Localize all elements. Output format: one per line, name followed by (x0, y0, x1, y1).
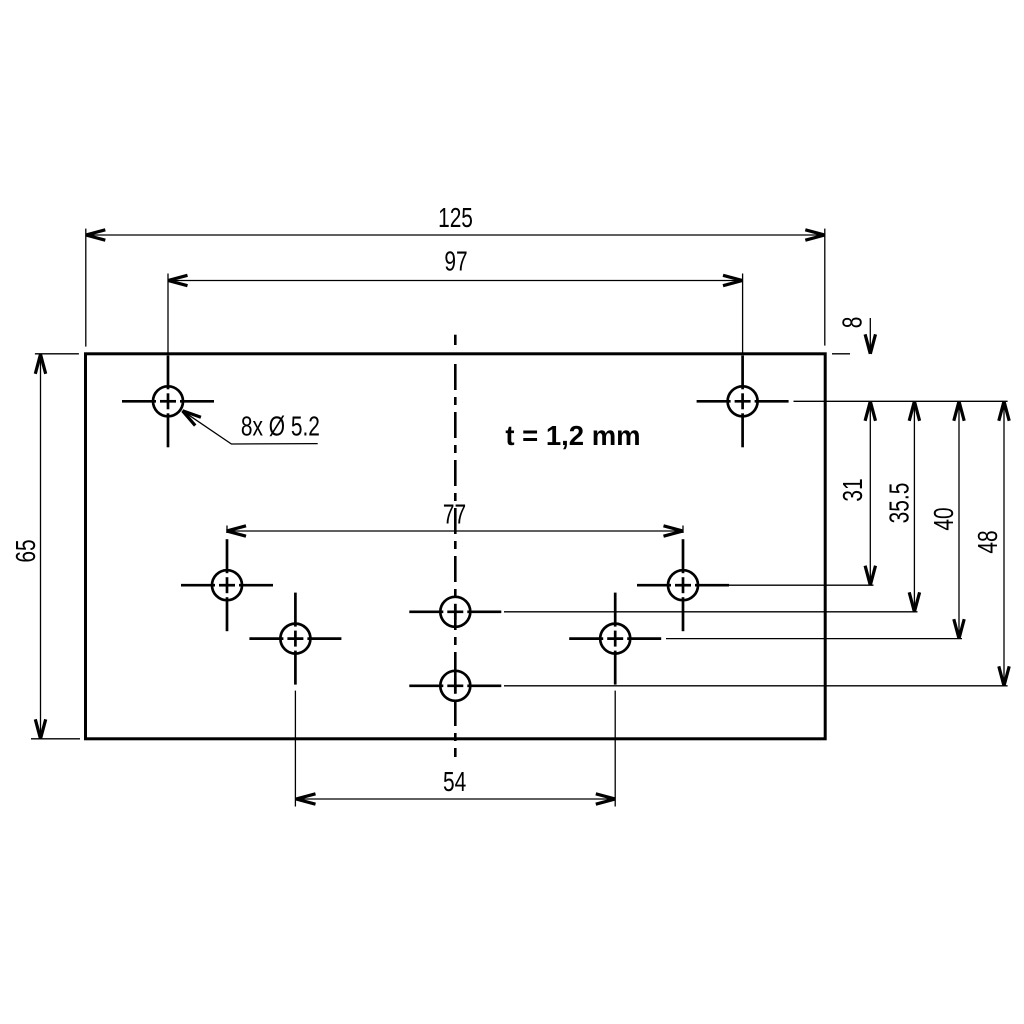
arrow 125 right (805, 230, 825, 240)
svg-text:97: 97 (444, 247, 467, 277)
arrow 97 left (168, 275, 188, 285)
extension line row 35.5 (504, 611, 918, 613)
extension line row 31 (729, 584, 874, 586)
svg-text:65: 65 (11, 539, 41, 562)
dimension line 31 vertical (869, 401, 871, 585)
svg-text:77: 77 (443, 500, 466, 530)
arrow 77 right (664, 526, 684, 536)
hole H lower-right (569, 593, 661, 685)
leader line for hole note (183, 411, 318, 444)
hole G mid-right (637, 539, 729, 631)
dimension line 40 vertical (958, 401, 960, 638)
dimension 65 line (31, 354, 80, 739)
arrow 48 down (999, 666, 1009, 686)
svg-text:t = 1,2 mm: t = 1,2 mm (505, 420, 640, 451)
arrow 65 bottom (35, 719, 45, 739)
centerline vertical axis (454, 335, 457, 345)
arrow 97 right (723, 275, 743, 285)
arrow 35.5 up (909, 401, 919, 421)
hole D lower-left (249, 593, 341, 685)
arrow 54 right (596, 794, 616, 804)
dimension 8 line (832, 318, 870, 354)
svg-text:8: 8 (838, 317, 868, 329)
dimension 54 line (295, 691, 615, 807)
right side extension line from hole B row (794, 400, 1008, 402)
arrow 40 up (954, 401, 964, 421)
hole B top-right (697, 356, 789, 448)
dimension texts (11, 203, 1003, 797)
arrow 54 left (296, 794, 316, 804)
dimension 97 line (168, 274, 743, 354)
extension line row 40 (666, 638, 962, 640)
arrow 40 down (954, 619, 964, 639)
hole F center-lower (409, 671, 501, 701)
dimension 77 line (227, 526, 684, 534)
arrow 35.5 down (909, 592, 919, 612)
arrow 31 up (865, 401, 875, 421)
arrow 65 top (35, 354, 45, 374)
svg-text:48: 48 (973, 530, 1003, 553)
hole C mid-left (181, 539, 273, 631)
svg-text:8x Ø 5.2: 8x Ø 5.2 (241, 412, 320, 442)
dimension 125 line (86, 229, 825, 347)
svg-text:54: 54 (443, 767, 466, 797)
dimension line 35.5 vertical (913, 401, 915, 612)
leader arrowhead (183, 411, 201, 426)
dimension line 48 vertical (1003, 401, 1005, 686)
arrowheads (35, 230, 1009, 804)
arrow 77 left (227, 526, 247, 536)
plate outline (86, 354, 826, 739)
svg-text:125: 125 (438, 203, 473, 233)
extension line row 48 (504, 685, 1008, 687)
arrow 125 left (86, 230, 106, 240)
svg-text:40: 40 (929, 507, 959, 530)
svg-text:31: 31 (838, 478, 868, 501)
arrow 31 down (865, 566, 875, 586)
arrow 48 up (999, 401, 1009, 421)
arrow 8 down (865, 334, 875, 354)
svg-text:35.5: 35.5 (885, 483, 915, 524)
hole A top-left (122, 356, 214, 448)
hole E center-upper (409, 597, 501, 627)
